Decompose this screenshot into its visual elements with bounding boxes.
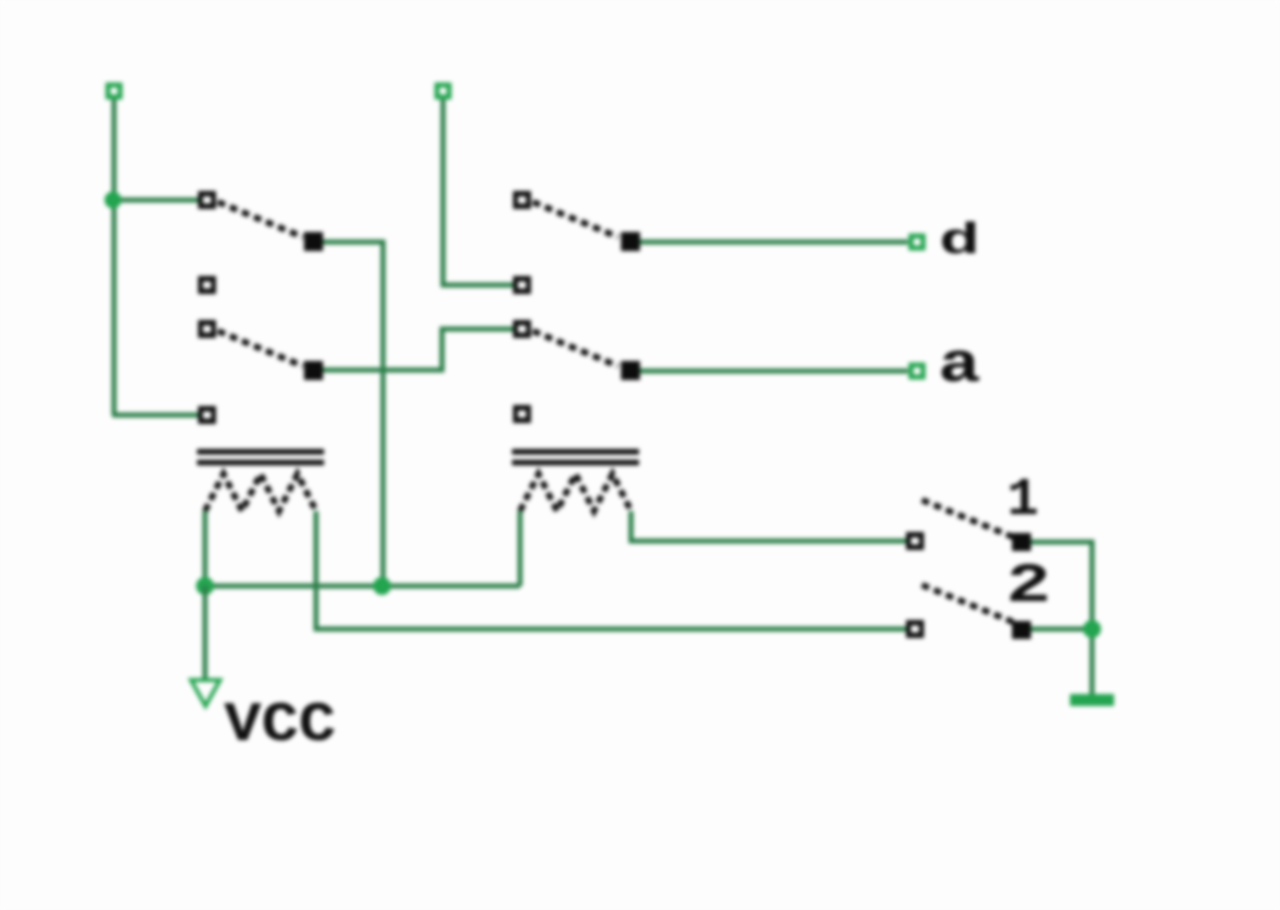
wire: T2 down and right to contact [443,95,513,285]
wire: T1 down to node VCC-left [112,95,117,415]
switch SW2 common pole [1012,621,1031,639]
switch SW1 arm [922,500,1013,537]
switch S1 common pole [304,232,323,251]
power symbol VCC arrow [191,680,220,706]
svg-text:VCC: VCC [224,693,336,757]
junction node C [373,577,391,595]
junction node A [105,192,122,209]
switch S3 common pole [621,232,640,251]
terminal T1 [108,85,120,97]
ground [1070,694,1114,706]
switch S4 contact [513,320,531,338]
terminal node d [911,236,923,248]
switch S1 contact [198,191,216,209]
terminal node a [911,365,923,377]
wire: node to S1 NO contact [114,198,199,203]
junction node D [1083,620,1101,638]
svg-text:1: 1 [1007,470,1039,530]
wire: S1 common to vertical bus [320,242,383,586]
switch S2 common pole [304,361,323,380]
wire: VCC rail [205,584,520,589]
switch S1 arm [218,202,303,237]
relay coil K1 core bars [197,449,324,465]
switch S2 arm [218,331,303,366]
wire: K2 pin 2 down and right to switch 1 [631,511,908,541]
wire: SW1 pole to ground column [1031,542,1092,694]
terminal T2 [437,85,449,97]
wire: left column bottom to contact [112,413,198,418]
wire: SW2 pole to ground column [1031,627,1092,632]
switch S4 arm [533,331,618,366]
wire: K2 pin 1 down to VCC rail [518,511,523,586]
wire: VCC stem [203,586,208,679]
switch SW1 common pole [1012,533,1031,551]
switch S3 NC contact [513,276,531,294]
svg-text:a: a [938,335,981,399]
svg-text:2: 2 [1006,554,1051,618]
switch SW2 arm [922,585,1013,622]
relay coil K2 core bars [512,449,639,465]
svg-text:d: d [939,217,980,267]
switch S1 NC contact [198,276,216,294]
junction node B [196,577,214,595]
wire: S3 common to terminal d [640,240,908,245]
switch SW2 contact [906,620,924,638]
switch S4 NC contact [513,405,531,423]
switch S2 NC contact [198,406,216,424]
switch S3 arm [533,202,618,237]
wire: S4 common to terminal a [640,369,908,374]
wire: S2 common jog to right contact [320,329,513,370]
wire: K1 pin 2 down and right to switch 2 [316,511,908,629]
switch S4 common pole [621,361,640,380]
relay coil K2 winding [520,474,631,511]
relay coil K1 winding [205,474,316,511]
wire: K1 pin 1 down [203,511,208,586]
switch S3 contact [513,191,531,209]
switch SW1 contact [906,532,924,550]
switch S2 contact [198,320,216,338]
